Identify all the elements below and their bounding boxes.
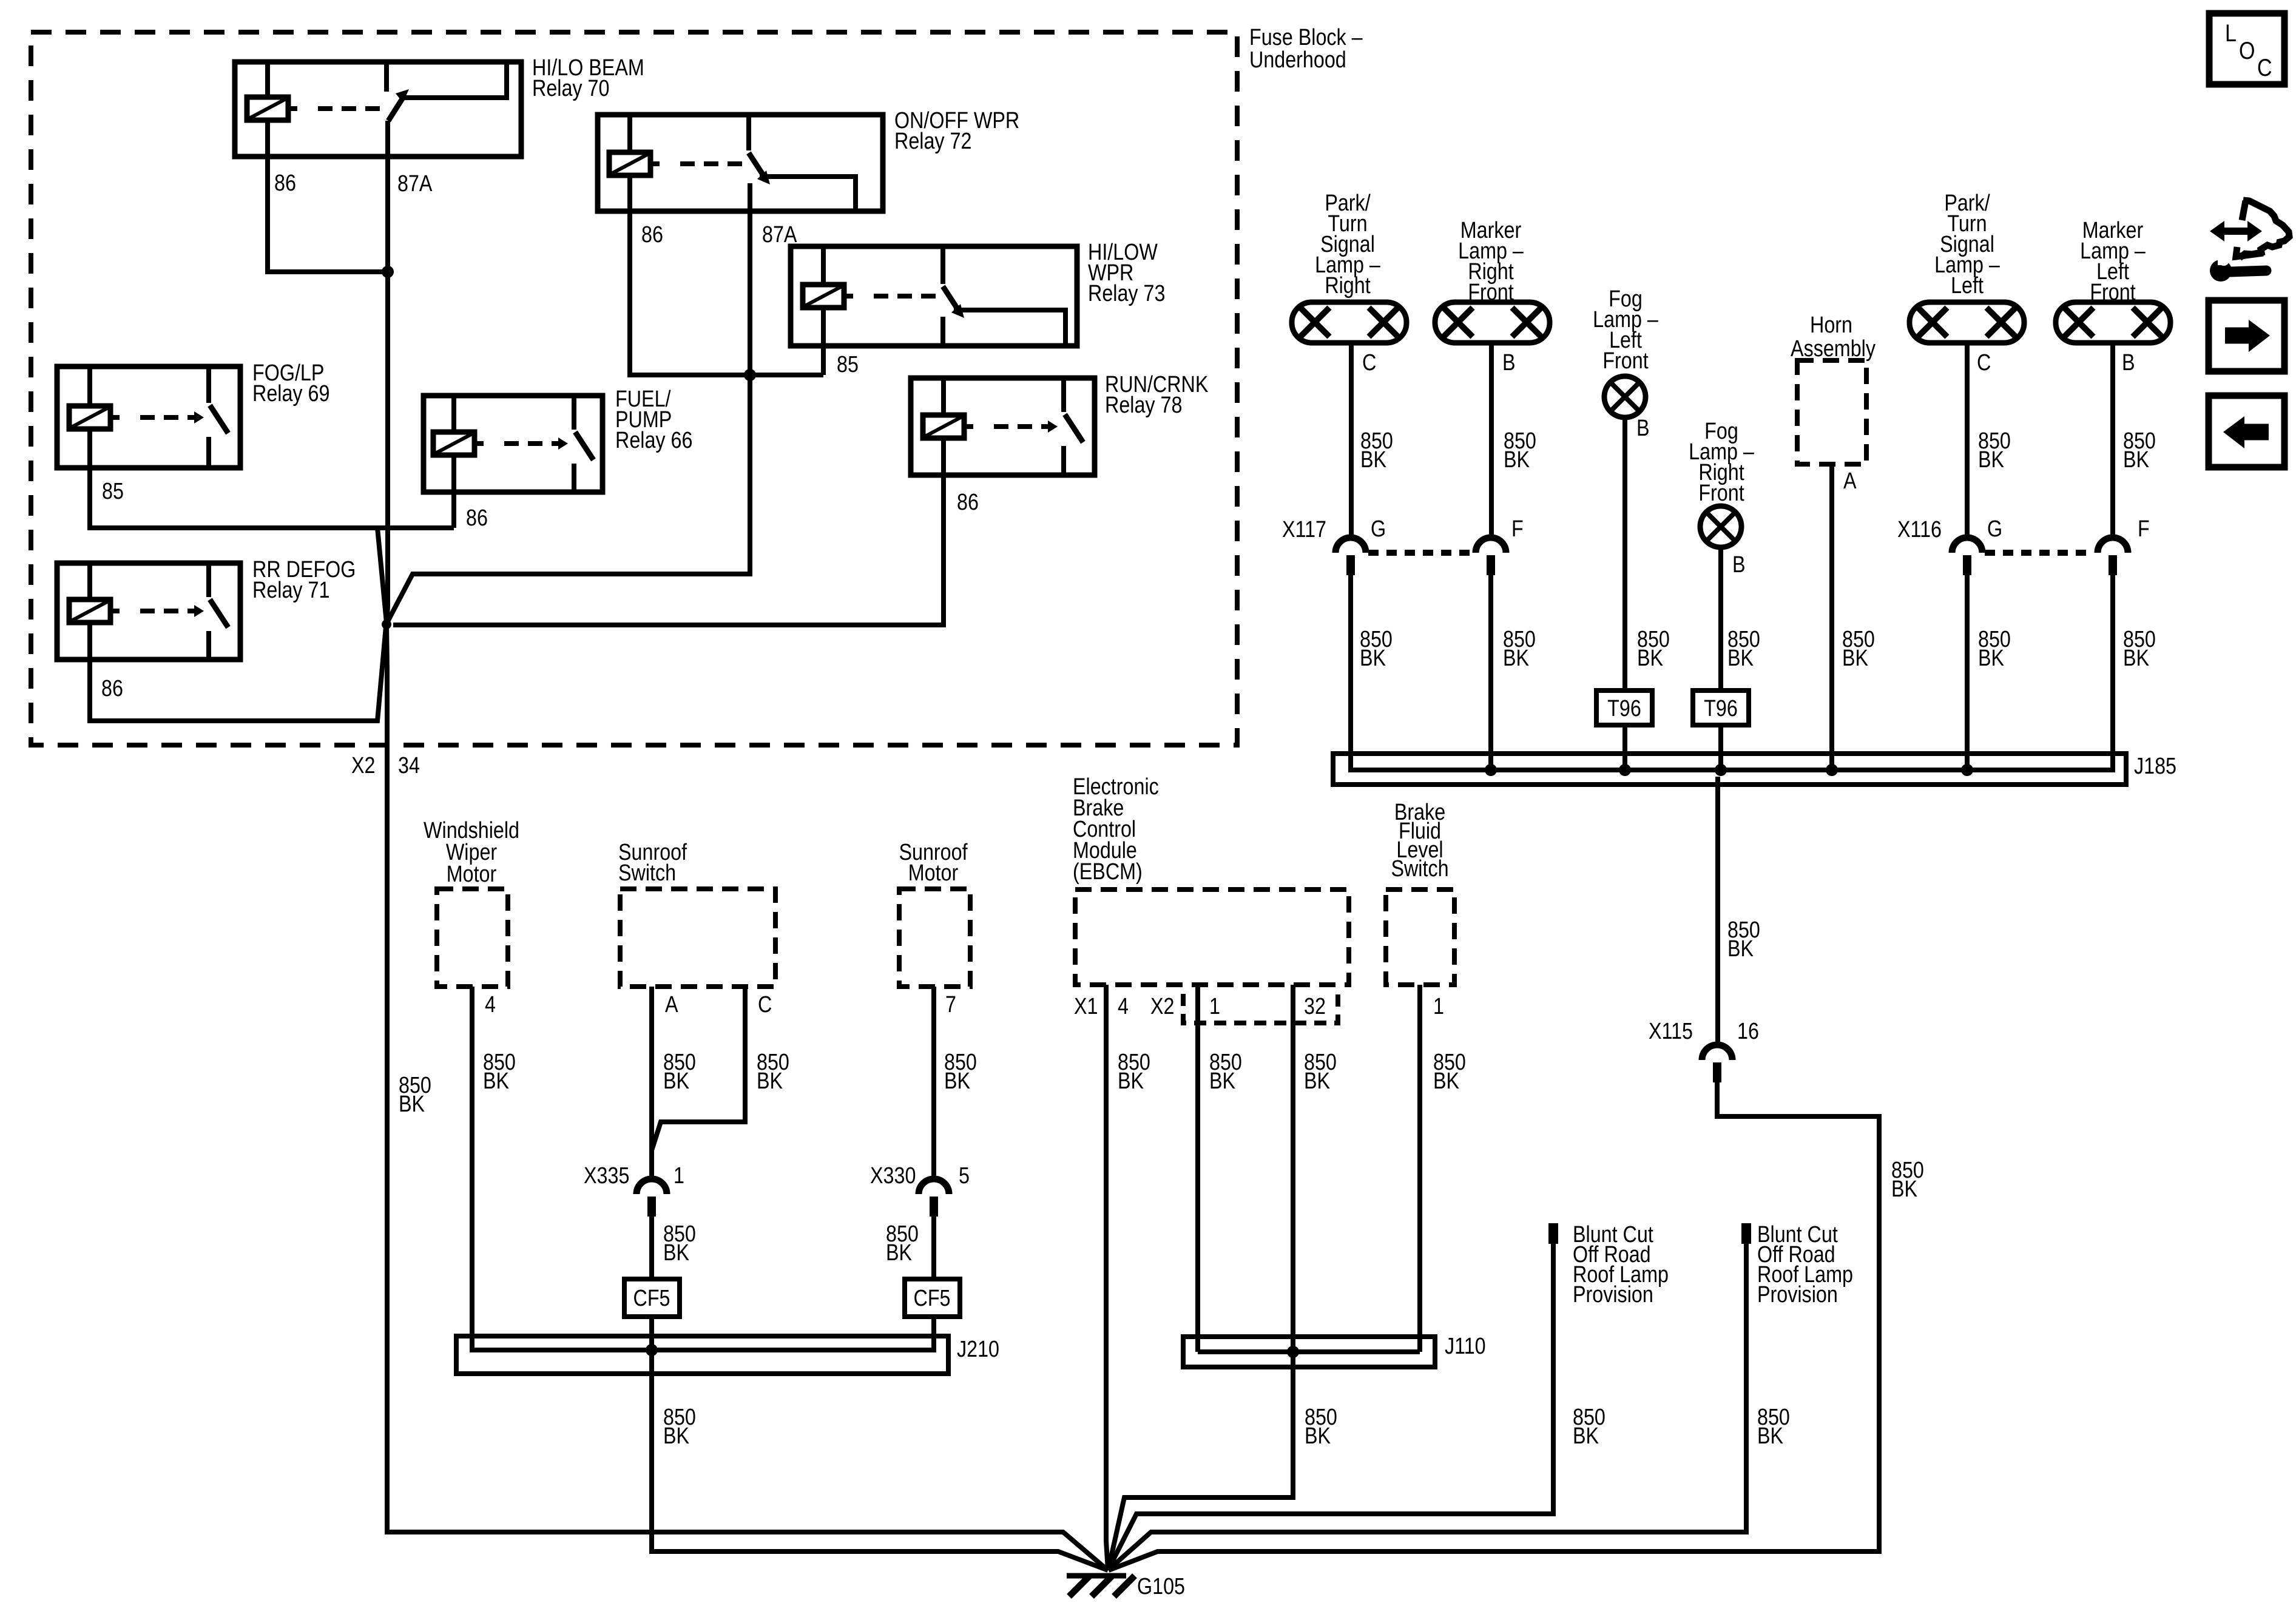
wire CF5 to J210: [931, 1317, 936, 1350]
sunroof switch dashed box: [620, 889, 775, 987]
wire from J110 down left to G105: [1109, 1357, 1293, 1568]
relay 70 coil line pin 86: [265, 62, 270, 157]
svg-text:F: F: [2138, 516, 2150, 542]
park/turn signal lamp - left symbol: [1909, 302, 2024, 343]
svg-text:A: A: [665, 992, 678, 1018]
svg-text:Front: Front: [1602, 348, 1649, 374]
svg-text:Motor: Motor: [908, 860, 959, 886]
junction dot at J185: [1619, 764, 1631, 776]
connector X335 pin 1: [636, 1179, 667, 1194]
svg-text:BK: BK: [1360, 447, 1387, 473]
junction dot at J110: [1287, 1346, 1299, 1358]
svg-text:G: G: [1987, 516, 2002, 542]
wire horn to J185: [1829, 464, 1834, 770]
splice T96 right: [1693, 690, 1749, 725]
svg-text:32: 32: [1304, 994, 1326, 1019]
svg-text:L: L: [2225, 19, 2237, 46]
svg-text:86: 86: [274, 170, 296, 196]
fuse block - underhood dashed boundary: [31, 32, 1237, 745]
svg-text:Switch: Switch: [1391, 856, 1448, 882]
svg-text:X2: X2: [1150, 994, 1174, 1019]
svg-text:BK: BK: [1573, 1423, 1599, 1449]
relay 70 HI/LO BEAM box: [235, 62, 521, 157]
svg-text:BK: BK: [757, 1068, 783, 1094]
relay 70 switch: [384, 62, 389, 92]
relay 69 switch: [206, 366, 211, 403]
wire lamp to X117: [1349, 343, 1354, 538]
svg-text:BK: BK: [1433, 1068, 1460, 1094]
svg-text:BK: BK: [886, 1240, 913, 1266]
wire T96 to J185: [1718, 725, 1723, 770]
relay 70 dashed actuator line: [318, 106, 382, 111]
wire X116 down to J185: [1965, 575, 1970, 770]
junction dot relay72 87A: [744, 369, 756, 381]
svg-text:87A: 87A: [397, 171, 433, 197]
marker lamp - right front symbol: [1435, 302, 1550, 343]
wire from J185 down to X115: [1715, 777, 1720, 1045]
junction dot at J185: [1961, 764, 1973, 776]
svg-text:Relay 72: Relay 72: [894, 129, 971, 154]
svg-text:BK: BK: [1637, 646, 1664, 671]
connector X117 cavity F: [1476, 538, 1506, 553]
connector X115 pin 16: [1702, 1045, 1732, 1060]
svg-text:BK: BK: [2123, 646, 2150, 671]
relay 78 switch: [1061, 378, 1066, 412]
relay 71 dashed actuator line: [140, 609, 194, 613]
relay 72 switch: [746, 115, 751, 150]
junction J2 crow-foot: [382, 619, 391, 629]
svg-text:Right: Right: [1325, 273, 1371, 299]
svg-text:86: 86: [957, 490, 979, 515]
svg-text:B: B: [1732, 552, 1746, 578]
relay 70 pin 87A line inside: [385, 121, 390, 157]
svg-text:(EBCM): (EBCM): [1073, 859, 1143, 885]
svg-text:Fuse Block –: Fuse Block –: [1249, 25, 1363, 50]
svg-text:Relay 73: Relay 73: [1088, 281, 1165, 306]
svg-text:B: B: [2122, 350, 2135, 376]
svg-text:G: G: [1371, 516, 1386, 542]
svg-text:T96: T96: [1607, 696, 1641, 721]
svg-text:BK: BK: [1360, 646, 1386, 671]
wire lamp to connector F: [1489, 343, 1494, 538]
svg-text:1: 1: [1433, 994, 1444, 1019]
brake fluid level switch dashed box: [1386, 890, 1454, 985]
wire X117 down to J185: [1348, 575, 1353, 770]
junction dot at J185: [1485, 764, 1497, 776]
svg-text:Motor: Motor: [447, 862, 497, 887]
relay 70 coil: [247, 97, 288, 120]
svg-text:BK: BK: [1978, 646, 2005, 671]
fog lamp - left front symbol: [1604, 376, 1646, 417]
svg-text:BK: BK: [1304, 1068, 1331, 1094]
dashed connector jumper X116: [1985, 550, 2091, 556]
svg-text:Provision: Provision: [1573, 1282, 1653, 1308]
svg-text:BK: BK: [1504, 447, 1530, 473]
LOC navigation box icon: [2209, 13, 2284, 84]
svg-text:Left: Left: [1951, 273, 1984, 299]
splice CF5 left: [624, 1279, 680, 1317]
wire relay71 pin86 down right and diagonal to junction J2: [90, 627, 386, 721]
splice pack J110 outer box: [1183, 1337, 1435, 1367]
hyperlink icon arrow left: [2209, 396, 2284, 467]
svg-text:Front: Front: [1698, 481, 1744, 506]
relay 78 coil line pin 86: [941, 378, 946, 475]
svg-text:86: 86: [101, 676, 123, 701]
svg-text:Relay 71: Relay 71: [252, 578, 329, 603]
connector X117 cavity G: [1335, 538, 1366, 553]
svg-text:BK: BK: [1118, 1068, 1144, 1094]
dashed connector jumper X117: [1368, 550, 1474, 556]
svg-text:Horn: Horn: [1810, 312, 1852, 338]
wire relay73 pin85 down: [821, 346, 826, 375]
relay 69 coil line pin 85: [87, 366, 92, 468]
svg-text:J185: J185: [2134, 754, 2176, 779]
hyperlink icon arrow right: [2209, 300, 2284, 371]
svg-text:86: 86: [466, 505, 488, 531]
connector X330 pin 5: [919, 1179, 949, 1194]
wire F down to J185: [1488, 575, 1493, 770]
junction dot J1: [382, 266, 394, 278]
svg-text:5: 5: [959, 1163, 970, 1189]
wire relay72 pin87A down: [748, 211, 752, 375]
wire main ground trunk: [387, 272, 1108, 1570]
svg-text:T96: T96: [1704, 696, 1738, 721]
relay 78 RUN/CRNK box: [911, 378, 1095, 475]
relay 71 switch: [206, 563, 211, 597]
blunt cut off road roof lamp provision left symbol: [1548, 1223, 1558, 1244]
wire X335 to CF5: [649, 1216, 654, 1279]
svg-text:Relay 69: Relay 69: [252, 381, 329, 407]
svg-text:BK: BK: [663, 1240, 690, 1266]
relay 66 switch: [572, 396, 576, 430]
wire relay69 pin85 down and right: [90, 468, 454, 528]
wire fog lamp right down: [1718, 547, 1723, 690]
svg-text:BK: BK: [1842, 646, 1869, 671]
wire wiper motor to J210: [470, 987, 474, 1350]
svg-text:CF5: CF5: [633, 1286, 670, 1311]
ground G105 symbol: [1067, 1573, 1126, 1579]
relay 72 dashed actuator line: [680, 161, 744, 166]
splice pack J210 inner bus: [472, 1341, 934, 1350]
svg-text:C: C: [758, 992, 772, 1018]
splice pack J210 outer box: [456, 1336, 948, 1374]
wire sunroof switch pin C down left join A: [652, 987, 745, 1150]
svg-text:BK: BK: [1305, 1423, 1331, 1449]
svg-text:BK: BK: [399, 1092, 425, 1117]
svg-text:J110: J110: [1445, 1334, 1486, 1359]
relay 73 dashed actuator line: [874, 294, 938, 299]
wire branch diagonal to junction J2: [377, 528, 387, 623]
svg-text:Provision: Provision: [1757, 1282, 1838, 1308]
relay 66 coil: [433, 432, 474, 455]
svg-text:CF5: CF5: [914, 1286, 951, 1311]
relay 78 coil: [923, 415, 964, 438]
junction dot at J185: [1715, 764, 1727, 776]
svg-text:BK: BK: [1891, 1176, 1918, 1202]
relay 69 coil: [69, 406, 110, 429]
svg-text:X330: X330: [870, 1163, 916, 1189]
svg-text:7: 7: [945, 992, 956, 1018]
svg-text:BK: BK: [1727, 646, 1754, 671]
svg-text:X1: X1: [1074, 994, 1098, 1019]
relay 72 coil: [609, 152, 650, 175]
svg-text:Relay 66: Relay 66: [615, 428, 692, 453]
relay 69 dashed actuator line: [140, 415, 194, 420]
svg-text:X2: X2: [351, 753, 375, 778]
splice pack J185 inner bus: [1351, 758, 2113, 770]
svg-text:BK: BK: [2123, 447, 2150, 473]
component location icon with double arrow vehicle and wrench: [2223, 228, 2249, 235]
wire CF5 to J210: [649, 1317, 654, 1350]
wire lamp to X116: [1965, 343, 1970, 538]
relay 78 dashed actuator line: [994, 424, 1048, 429]
wire fog lamp left down: [1622, 417, 1627, 690]
svg-text:C: C: [2257, 53, 2272, 81]
relay 72 coil line pin 86: [627, 115, 632, 211]
svg-text:16: 16: [1737, 1019, 1759, 1044]
connector X116 cavity F: [2098, 538, 2128, 553]
wire brake fluid switch down to J110: [1417, 985, 1422, 1352]
svg-text:1: 1: [674, 1163, 684, 1189]
wire relay72 pin86 down to horizontal: [630, 211, 823, 375]
svg-text:BK: BK: [1757, 1423, 1784, 1449]
relay 71 coil line pin 86: [87, 563, 92, 660]
park/turn signal lamp - right symbol: [1292, 302, 1406, 343]
marker lamp - left front symbol: [2056, 302, 2170, 343]
wire blunt cut left down to G105: [1109, 1244, 1553, 1569]
svg-text:BK: BK: [663, 1068, 690, 1094]
windshield wiper motor dashed box: [437, 889, 508, 987]
relay 66 dashed actuator line: [504, 441, 558, 446]
svg-text:Assembly: Assembly: [1791, 336, 1876, 362]
relay 72 ON/OFF WPR box: [598, 115, 883, 211]
relay 73 pin stub inside: [940, 317, 945, 346]
svg-text:Relay 70: Relay 70: [532, 76, 609, 101]
wire sunroof motor down to X330: [931, 987, 936, 1179]
splice T96 left: [1596, 690, 1652, 725]
wire blunt cut right down to G105: [1109, 1244, 1746, 1570]
wire relay78 pin86 down and left to junction J2: [393, 475, 944, 625]
wire lamp to connector F: [2110, 343, 2115, 538]
wire EBCM X1-4 down to G105: [1106, 985, 1108, 1570]
svg-text:J210: J210: [957, 1337, 999, 1362]
EBCM X2 connector dashed outline: [1183, 994, 1338, 1023]
splice pack J110 inner bus: [1198, 1349, 1420, 1354]
svg-text:G105: G105: [1137, 1574, 1185, 1599]
relay 66 FUEL/PUMP box: [424, 396, 603, 492]
svg-text:BK: BK: [944, 1068, 971, 1094]
svg-text:C: C: [1362, 350, 1376, 376]
svg-text:BK: BK: [483, 1068, 510, 1094]
relay 66 coil line pin 86: [451, 396, 456, 492]
EBCM dashed box: [1075, 890, 1349, 985]
svg-text:85: 85: [102, 479, 124, 504]
svg-text:BK: BK: [1727, 936, 1754, 962]
svg-text:85: 85: [837, 352, 859, 377]
wire EBCM X2-32 down to J110: [1291, 985, 1295, 1352]
svg-text:4: 4: [485, 992, 496, 1018]
svg-text:B: B: [1502, 350, 1516, 376]
wire X115 down right and down: [1109, 1082, 1879, 1570]
svg-text:A: A: [1843, 468, 1857, 494]
splice CF5 right: [905, 1279, 960, 1317]
wire relay66 pin86 down: [451, 492, 456, 528]
relay 73 switch: [940, 246, 945, 284]
relay 72 pin 87A line inside: [748, 183, 752, 211]
splice pack J185 outer box: [1333, 754, 2126, 785]
wire relay70 pin86 down to junction: [268, 157, 388, 272]
junction dot at J185: [1826, 764, 1838, 776]
relay 69 FOG/LP box: [57, 366, 240, 468]
wire relay70 pin87A down: [385, 157, 390, 272]
svg-text:BK: BK: [1209, 1068, 1236, 1094]
relay 71 coil: [69, 599, 110, 623]
horn assembly dashed box: [1797, 360, 1866, 464]
wire sunroof switch pin A down to X335: [649, 987, 654, 1179]
fog lamp - right front symbol: [1700, 506, 1741, 547]
svg-text:86: 86: [641, 222, 663, 248]
svg-text:Relay 78: Relay 78: [1105, 393, 1182, 418]
svg-text:Switch: Switch: [618, 860, 676, 886]
svg-text:B: B: [1636, 416, 1650, 441]
wire EBCM X2-1 down to J110: [1195, 985, 1200, 1352]
svg-text:BK: BK: [1978, 447, 2005, 473]
svg-text:C: C: [1977, 350, 1991, 376]
svg-text:Underhood: Underhood: [1249, 47, 1346, 73]
relay 73 coil line pin 85: [821, 246, 826, 346]
wire F down to J185 inner end: [2110, 575, 2115, 770]
blunt cut off road roof lamp provision right symbol: [1741, 1223, 1751, 1244]
svg-text:X116: X116: [1897, 517, 1942, 542]
connector X116 cavity G: [1952, 538, 1982, 553]
svg-text:87A: 87A: [762, 222, 797, 248]
svg-text:X115: X115: [1649, 1019, 1693, 1044]
relay 71 RR DEFOG box: [57, 563, 240, 660]
svg-text:X117: X117: [1282, 517, 1326, 542]
svg-text:O: O: [2239, 36, 2255, 64]
sunroof motor dashed box: [899, 889, 970, 987]
relay 73 coil: [803, 285, 844, 308]
wire from J210 down to G105: [652, 1355, 1108, 1570]
svg-text:1: 1: [1209, 994, 1220, 1019]
svg-text:X335: X335: [584, 1163, 629, 1189]
svg-text:BK: BK: [663, 1423, 690, 1449]
svg-text:F: F: [1511, 516, 1524, 542]
relay 73 HI/LOW WPR box: [791, 246, 1077, 346]
junction dot at J210: [646, 1344, 658, 1356]
wire relay72 87A trunk down left and diagonal to junction J2: [387, 375, 750, 623]
svg-text:BK: BK: [1503, 646, 1530, 671]
wire T96 to J185: [1622, 725, 1627, 770]
wire X330 to CF5: [931, 1216, 936, 1279]
svg-text:34: 34: [398, 753, 420, 778]
svg-text:4: 4: [1118, 994, 1129, 1019]
